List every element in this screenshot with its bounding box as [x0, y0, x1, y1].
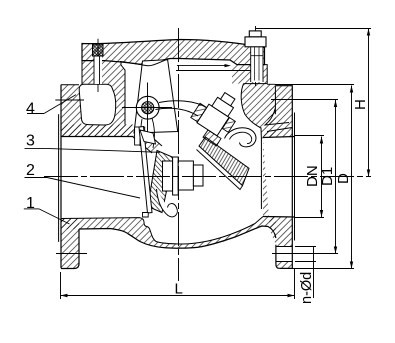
svg-text:1: 1: [26, 195, 35, 212]
main vertical centerline: [178, 28, 180, 281]
stud bolt right (B2): [255, 26, 257, 86]
disc washer curl (open): [225, 128, 256, 147]
arm pad and disc nut (open): [190, 84, 245, 139]
disc (open position): [199, 137, 249, 186]
bonnet underside dip over bracket: [120, 59, 170, 66]
left flange raised face double line: [58, 114, 60, 242]
closed arm edges below hinge: [152, 118, 154, 148]
disc guard hook (closed): [157, 189, 178, 217]
body: right chamber wall: [241, 84, 276, 139]
valve body: left flange foot: [61, 219, 79, 269]
dimension D1: [335, 100, 337, 254]
bonnet cover plate: [82, 40, 265, 66]
svg-text:L: L: [175, 281, 183, 298]
extension line DN bottom: [295, 217, 324, 219]
svg-text:3: 3: [26, 133, 35, 150]
extension line hole bottom: [295, 261, 316, 263]
valve body: bottom wall: [61, 217, 276, 249]
seat ring (part 2): [139, 127, 152, 214]
valve body: left flange block with bolt pocket: [61, 61, 133, 137]
disc (closed position, part 3): [148, 151, 174, 213]
body: seat recess wedge: [133, 125, 162, 154]
body: left upper pipe wall: [61, 125, 133, 137]
dimension L: [60, 272, 62, 299]
swing arm (open position): [159, 101, 207, 108]
joint lines under bonnet: [176, 70, 260, 72]
hinge centerlines: [122, 107, 172, 109]
disc nut stack on centerline: [163, 161, 173, 191]
right flange bolt hole: [276, 246, 292, 248]
svg-text:4: 4: [26, 101, 35, 118]
dimension DN: [321, 137, 323, 218]
svg-text:D1: D1: [319, 167, 336, 186]
dimension H: [368, 29, 370, 177]
extension line DN top: [295, 135, 325, 137]
right bore edges: [263, 137, 295, 138]
main horizontal centerline: [44, 176, 371, 178]
dimension n-Od leader: [313, 247, 315, 299]
extension line H top: [256, 28, 372, 30]
stud bolt left (B1): [97, 39, 99, 92]
body: right flange: [263, 86, 292, 269]
hinge boss outer circle: [136, 96, 159, 119]
extension line D bottom: [280, 268, 354, 270]
extension line hole top: [295, 246, 316, 248]
body: bonnet flange right piece: [232, 65, 267, 84]
dimension D: [351, 86, 353, 269]
closed-position arm stop blocks: [135, 127, 141, 145]
hinge pin: [142, 102, 154, 114]
right flange raised face line: [294, 113, 296, 241]
flange neck gap wedge: [265, 123, 292, 132]
extension line D top: [275, 84, 354, 86]
svg-text:n-Ød: n-Ød: [299, 272, 315, 304]
svg-text:2: 2: [26, 162, 35, 179]
extension line D1 top: [271, 99, 338, 101]
joint line with arrow: [177, 65, 227, 67]
hinge bracket: [134, 60, 178, 133]
bolt pocket outline: [79, 84, 116, 125]
svg-text:H: H: [352, 99, 369, 110]
extension line bolt circle bottom: [272, 253, 338, 255]
arm boss toward disc (open): [203, 130, 221, 146]
svg-text:D: D: [335, 173, 352, 184]
left flange bolt hole marks: [55, 99, 84, 101]
